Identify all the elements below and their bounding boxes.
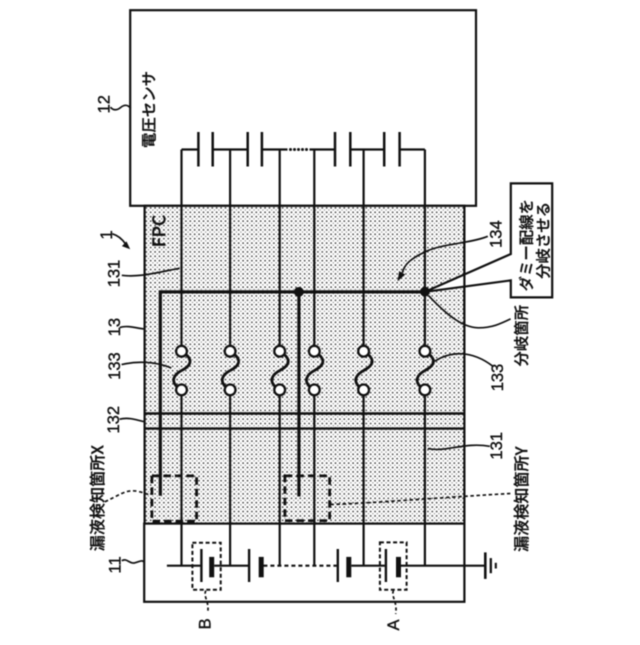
svg-text:11: 11 [106,556,124,573]
svg-text:133: 133 [489,364,507,392]
svg-text:A: A [385,619,403,630]
svg-text:134: 134 [488,220,506,248]
svg-text:1: 1 [98,230,116,239]
svg-text:131: 131 [488,432,506,460]
svg-text:132: 132 [105,406,123,434]
svg-text:13: 13 [106,318,124,336]
svg-text:133: 133 [106,352,124,380]
svg-text:12: 12 [95,95,113,113]
svg-text:131: 131 [106,260,124,288]
svg-text:B: B [196,618,214,629]
